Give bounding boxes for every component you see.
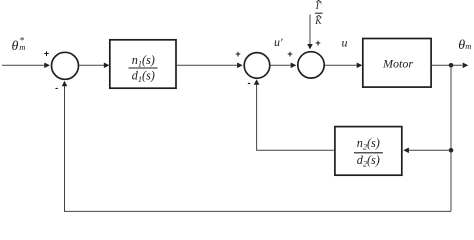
label theta_m_star input: [12, 36, 26, 54]
wire S3 to Motor block: [325, 63, 362, 69]
block Motor: [363, 39, 431, 88]
minus sign at S2 feedback input: [248, 78, 251, 88]
svg-text:θm: θm: [458, 38, 471, 53]
svg-text:+: +: [287, 49, 292, 59]
minus sign at S1 feedback input: [55, 83, 58, 93]
svg-text:θ: θ: [12, 39, 19, 54]
value label n1(s)/d1(s): [129, 53, 158, 84]
label Gamma-hat over K-hat: [314, 0, 322, 27]
svg-text:u: u: [342, 36, 348, 50]
wire Motor to output: [431, 63, 468, 69]
wire Gamma/K into S3 top: [307, 15, 313, 50]
summing junction S3: [298, 52, 324, 78]
svg-text:Γ: Γ: [315, 2, 322, 12]
block G2 n2(s)/d2(s): [335, 127, 402, 176]
plus sign at S3 horizontal input: [287, 49, 292, 59]
svg-text:+: +: [235, 49, 240, 59]
svg-text:d1(s): d1(s): [132, 69, 155, 85]
svg-text:-: -: [55, 83, 58, 93]
plus sign at S2 input: [235, 49, 240, 59]
wire S2 to summing junction S3: [271, 63, 297, 69]
label theta_m output: [458, 38, 471, 53]
block G1 n1(s)/d1(s): [110, 40, 176, 88]
value label n2(s)/d2(s): [354, 136, 383, 169]
wire feedback branch into block G2: [403, 148, 451, 154]
wire vertical feedback from output node: [450, 65, 452, 211]
svg-text:d2(s): d2(s): [357, 153, 380, 169]
label u-prime: [274, 35, 283, 49]
svg-text:n2(s): n2(s): [357, 136, 380, 152]
plus sign at S3 vertical input: [315, 38, 320, 48]
svg-text:+: +: [44, 49, 49, 59]
svg-text:n1(s): n1(s): [132, 53, 155, 69]
svg-text:-: -: [248, 78, 251, 88]
wire S1 to block G1: [79, 63, 109, 69]
plus sign at S1 input: [44, 49, 49, 59]
wire G2 to S2 bottom: [254, 79, 335, 150]
summing junction S1: [52, 52, 79, 79]
svg-text:+: +: [315, 38, 320, 48]
svg-text:K: K: [314, 17, 322, 27]
value label Motor: [382, 57, 413, 71]
svg-text:m: m: [19, 42, 25, 52]
summing junction S2: [244, 53, 270, 79]
node dot on output wire: [449, 63, 454, 68]
svg-text:u′: u′: [274, 35, 283, 49]
label u: [342, 36, 348, 50]
svg-text:Motor: Motor: [382, 57, 413, 71]
node dot at feedback branch: [449, 148, 454, 153]
wire bottom feedback from output to S1: [62, 81, 451, 212]
wire G1 to summing junction S2: [177, 63, 243, 69]
wire input to summing junction S1: [2, 63, 50, 69]
